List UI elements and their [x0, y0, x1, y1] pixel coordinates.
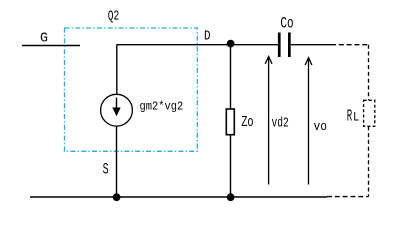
svg-text:Co: Co [280, 15, 293, 33]
voltage arrow vo [308, 58, 310, 184]
wire top dashed to RL [331, 44, 369, 46]
svg-text:R: R [347, 108, 352, 127]
svg-text:G: G [40, 30, 48, 46]
current source arrow [116, 98, 118, 109]
svg-text:L: L [353, 110, 359, 125]
svg-text:D: D [204, 29, 211, 45]
resistor RL dashed box [364, 100, 375, 126]
capacitor Co plates [278, 33, 281, 58]
wire capacitor to load [291, 44, 331, 46]
wire source vertical [116, 126, 118, 197]
svg-text:gm2*vg2: gm2*vg2 [140, 100, 184, 114]
svg-text:vd2: vd2 [272, 116, 289, 131]
svg-text:S: S [103, 160, 109, 178]
svg-text:Zo: Zo [241, 115, 253, 131]
wire Zo branch bottom [230, 135, 232, 197]
wire top rail (drain to capacitor) [117, 44, 279, 46]
wire bottom rail dashed [327, 196, 369, 198]
junction dot Zo-bottom [227, 193, 235, 201]
svg-text:vo: vo [314, 119, 328, 134]
wire bottom rail [30, 196, 327, 198]
wire RL dashed vertical top [368, 45, 370, 101]
resistor Zo [226, 109, 234, 135]
voltage arrow vd2 [268, 57, 270, 185]
junction dot Zo-top [227, 40, 235, 48]
transistor Q2 dashed box [65, 28, 198, 151]
current source U1 circle [101, 94, 133, 126]
wire drain vertical [116, 45, 118, 95]
junction dot source-bottom [113, 193, 121, 201]
wire gate stub [22, 45, 80, 47]
wire RL dashed vertical bottom [368, 126, 370, 196]
wire Zo branch top [230, 45, 232, 109]
svg-text:Q2: Q2 [108, 8, 120, 24]
